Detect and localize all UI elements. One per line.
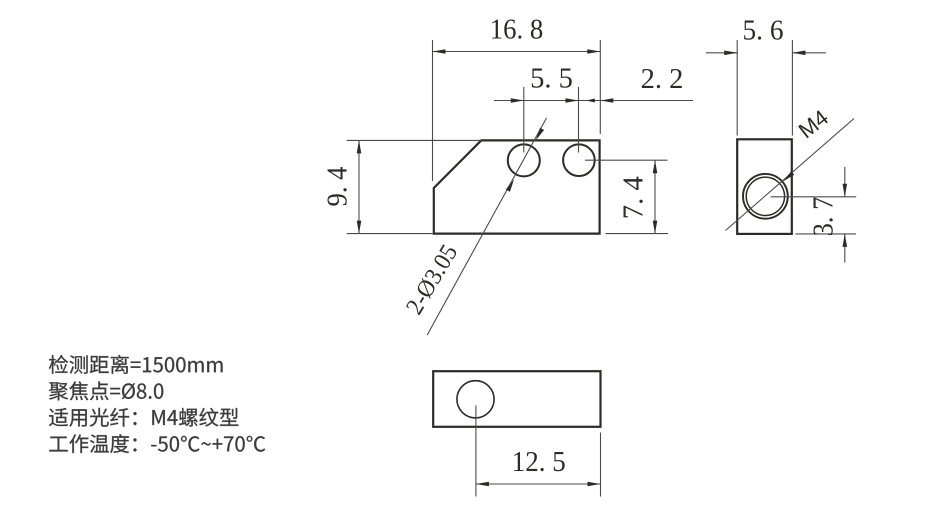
svg-text:16. 8: 16. 8 [490,14,544,45]
svg-text:5. 6: 5. 6 [743,16,784,47]
svg-text:9. 4: 9. 4 [323,167,354,207]
svg-text:2. 2: 2. 2 [641,64,684,95]
svg-text:2-Ø3.05: 2-Ø3.05 [401,240,463,319]
svg-text:M4: M4 [794,105,833,144]
svg-text:7. 4: 7. 4 [619,176,650,219]
svg-text:3. 7: 3. 7 [809,197,840,237]
svg-text:5. 5: 5. 5 [530,64,573,95]
svg-text:12. 5: 12. 5 [512,447,566,478]
